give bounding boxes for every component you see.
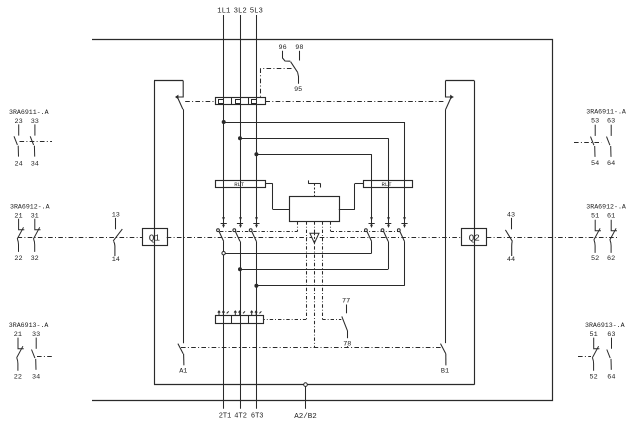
- contact actuation linkage right row: [331, 231, 400, 233]
- current sensor marks pole1: [218, 311, 229, 315]
- svg-text:63: 63: [607, 117, 615, 125]
- junction dot L2: [239, 137, 242, 140]
- svg-text:14: 14: [112, 256, 120, 264]
- pole contact hinge circle 4: [365, 229, 368, 232]
- aux block 3RA6911 left contact 23-24: [14, 124, 19, 156]
- svg-text:51: 51: [591, 212, 599, 220]
- wire L1 upper: [223, 15, 225, 217]
- current sensor box row: [216, 316, 264, 324]
- svg-text:22: 22: [14, 374, 22, 382]
- pole contact blade 5: [384, 232, 389, 242]
- contact 13-14 blade: [113, 229, 122, 241]
- pole contact hinge circle 6: [397, 229, 400, 232]
- svg-text:96: 96: [279, 44, 287, 52]
- mechanical link left latch to trip box: [185, 101, 215, 103]
- aux block 3RA6913 right contact 63-64: [607, 338, 612, 370]
- current sensor box divider 2: [248, 315, 250, 323]
- junction dot L1: [222, 121, 225, 124]
- svg-text:52: 52: [590, 374, 598, 382]
- svg-text:4T2: 4T2: [234, 413, 247, 421]
- aux block 3RA6911 left contact 33-34: [30, 124, 35, 156]
- wire L3 to Q2 pole1: [256, 154, 371, 156]
- svg-text:A1: A1: [179, 367, 187, 375]
- current sensor marks pole2: [234, 311, 245, 315]
- aux block 3RA6911 right contact 53-54: [591, 125, 596, 157]
- electronics module box: [290, 197, 340, 222]
- contact 77-78 top lead: [346, 305, 348, 314]
- wire A2/B2: [305, 387, 307, 409]
- pole contact hinge circle 5: [381, 229, 384, 232]
- main mechanical linkage line (right part): [487, 237, 618, 239]
- svg-text:3RA6912-.A: 3RA6912-.A: [586, 204, 626, 211]
- overload trip box divider 1: [231, 97, 233, 104]
- linkage electronics to test contact: [322, 221, 324, 319]
- main mechanical linkage line (left part): [18, 237, 143, 239]
- svg-text:62: 62: [607, 255, 615, 263]
- svg-text:5L3: 5L3: [250, 7, 263, 15]
- aux block 3RA6912 left contact 21-22: [17, 219, 24, 252]
- contact 43-44 bottom lead: [511, 241, 514, 256]
- wire T1 lower: [223, 241, 225, 408]
- svg-text:61: 61: [607, 212, 615, 220]
- contact 13-14 bottom lead: [114, 241, 115, 256]
- pole contact actuation arrow 3: [256, 217, 258, 227]
- pole contact actuation arrow 5: [388, 217, 390, 227]
- crossover wire 3 (T3 to Q2 pole3): [256, 285, 404, 287]
- aux block 3RA6913 left linkage: [37, 356, 52, 358]
- contact 13-14 top lead: [115, 218, 117, 229]
- linkage electronics to right actuation row: [330, 221, 332, 231]
- inner contactor assembly box (bottom edge): [154, 384, 474, 386]
- aux block 3RA6912 right contact 51-52: [594, 220, 601, 253]
- svg-text:54: 54: [591, 160, 599, 168]
- contactor Q1 box: [143, 229, 168, 246]
- svg-text:32: 32: [31, 255, 39, 263]
- main mechanical linkage line (middle part): [167, 237, 462, 239]
- trip latch element pole 2: [236, 100, 241, 104]
- svg-text:3RA6912-.A: 3RA6912-.A: [10, 204, 50, 211]
- wire Q2 pole3 lower: [404, 241, 406, 285]
- wire T3 lower: [256, 241, 258, 408]
- contact B1 blade: [441, 344, 446, 354]
- contact 95-96-98 blade: [291, 62, 298, 73]
- right latch contact (inner box notch): [446, 81, 454, 110]
- svg-text:6T3: 6T3: [251, 413, 264, 421]
- right interlock rail: [445, 109, 447, 343]
- wire L3 upper: [256, 15, 258, 217]
- contact actuation linkage left row: [220, 231, 298, 233]
- svg-text:1L1: 1L1: [217, 7, 231, 15]
- svg-text:52: 52: [591, 255, 599, 263]
- pole contact blade 1: [219, 232, 224, 242]
- aux block 3RA6912 left contact 31-32: [33, 219, 40, 252]
- contact 95-96-98 lead 98: [299, 51, 301, 61]
- svg-text:34: 34: [31, 161, 39, 169]
- contact A1 lead: [183, 354, 185, 366]
- wire L2 to Q2 pole2: [240, 138, 388, 140]
- contact 77-78 blade: [342, 316, 348, 330]
- pole contact blade 4: [367, 232, 372, 242]
- wire T2 lower: [240, 241, 242, 408]
- reset selector symbol: [308, 180, 310, 183]
- wire L2 upper: [240, 15, 242, 217]
- aux block 3RA6912 right contact 61-62: [610, 220, 617, 253]
- pole contact hinge circle 3: [249, 229, 252, 232]
- right RLT module box: [364, 181, 413, 188]
- current sensor box divider 1: [231, 315, 233, 323]
- svg-text:Q1: Q1: [149, 232, 161, 243]
- contact A1 blade: [178, 344, 183, 354]
- inner box top edge left segment: [154, 80, 183, 82]
- svg-text:Q2: Q2: [469, 232, 480, 243]
- contact B1 lead: [445, 354, 447, 366]
- linkage electronics to current sensors: [306, 221, 308, 319]
- svg-text:64: 64: [607, 160, 615, 168]
- svg-text:3L2: 3L2: [234, 7, 247, 15]
- inner box top edge right segment: [446, 80, 475, 82]
- junction ring T1: [222, 252, 225, 255]
- outer enclosure frame (open left side): [92, 40, 553, 401]
- A1-B1 latch linkage line: [181, 347, 442, 349]
- crossover wire 2 (T2 to Q2 pole2): [240, 269, 388, 271]
- overload trip indicator box: [216, 98, 266, 105]
- svg-text:3RA6913-.A: 3RA6913-.A: [9, 322, 49, 329]
- contact 77-78 bottom lead: [347, 330, 349, 338]
- junction dot T2: [239, 268, 242, 271]
- pole contact actuation arrow 4: [371, 217, 373, 227]
- contact 43-44 top lead: [511, 218, 513, 229]
- reset selector dashed link: [314, 184, 316, 196]
- linkage electronics to left actuation row: [297, 221, 299, 231]
- linkage electronics trip vertical: [314, 221, 316, 348]
- contact 43-44 blade: [505, 230, 512, 241]
- pole contact blade 3: [252, 232, 257, 242]
- pole contact blade 6: [400, 232, 405, 242]
- wire Q2 pole1 lower: [371, 241, 373, 253]
- svg-text:3RA6913-.A: 3RA6913-.A: [585, 322, 625, 329]
- junction dot T3: [255, 284, 258, 287]
- svg-text:3RA6911-.A: 3RA6911-.A: [586, 109, 626, 116]
- svg-text:A2/B2: A2/B2: [294, 413, 317, 421]
- contact 77-78 tail link: [347, 346, 349, 348]
- svg-text:RLT: RLT: [382, 181, 393, 188]
- crossover wire 1 (T1 to Q2 pole1): [225, 253, 371, 255]
- svg-text:95: 95: [294, 86, 302, 94]
- svg-text:RLT: RLT: [234, 181, 245, 188]
- svg-text:53: 53: [591, 117, 599, 125]
- wire left RLT to electronics: [265, 183, 273, 185]
- aux block 3RA6911 right linkage: [574, 142, 602, 144]
- contact 95-96-98 lead 95: [297, 72, 300, 84]
- inner contactor assembly box (right edge): [474, 81, 476, 385]
- left RLT module box: [216, 181, 266, 188]
- pole contact actuation arrow 6: [404, 217, 406, 227]
- svg-text:2T1: 2T1: [219, 413, 232, 421]
- wire right RLT to electronics: [355, 183, 363, 185]
- mechanical link 95 contact to trip box: [261, 68, 292, 70]
- left latch contact (inner box notch): [177, 81, 183, 110]
- svg-text:34: 34: [32, 374, 40, 382]
- pole contact blade 2: [235, 232, 240, 242]
- svg-text:64: 64: [607, 374, 615, 382]
- contact 95-96-98 lead 96: [283, 51, 291, 61]
- junction dot L3: [255, 153, 258, 156]
- pole contact hinge circle 2: [233, 229, 236, 232]
- svg-text:3RA6911-.A: 3RA6911-.A: [9, 109, 49, 116]
- junction ring A2/B2: [304, 383, 308, 387]
- left interlock rail: [183, 109, 185, 343]
- aux block 3RA6913 left contact 33-34: [32, 338, 37, 370]
- inner contactor assembly box (left edge): [154, 81, 156, 385]
- svg-text:B1: B1: [441, 367, 449, 375]
- aux block 3RA6913 right linkage: [578, 356, 591, 358]
- aux block 3RA6913 left contact 21-22: [17, 338, 24, 371]
- pole contact actuation arrow 2: [240, 217, 242, 227]
- trip latch element pole 3: [252, 100, 257, 104]
- wire Q2 pole2 lower: [388, 241, 390, 269]
- svg-text:98: 98: [295, 44, 303, 52]
- svg-text:44: 44: [507, 256, 515, 264]
- svg-text:24: 24: [15, 161, 23, 169]
- aux block 3RA6911 left linkage: [20, 141, 53, 143]
- current sensor marks pole3: [251, 311, 262, 315]
- trip action triangle: [310, 233, 319, 243]
- svg-text:77: 77: [342, 297, 350, 305]
- pole contact actuation arrow 1: [223, 217, 225, 227]
- wire L1 to Q2 pole3: [224, 122, 405, 124]
- pole contact hinge circle 1: [217, 229, 220, 232]
- aux block 3RA6911 right contact 63-64: [607, 125, 612, 157]
- mechanical link trip box to right latch: [265, 101, 443, 103]
- overload trip box divider 2: [248, 97, 250, 104]
- aux block 3RA6913 right contact 51-52: [592, 338, 599, 371]
- trip latch element pole 1: [219, 100, 224, 104]
- contactor Q2 box: [462, 229, 487, 246]
- svg-text:22: 22: [14, 255, 22, 263]
